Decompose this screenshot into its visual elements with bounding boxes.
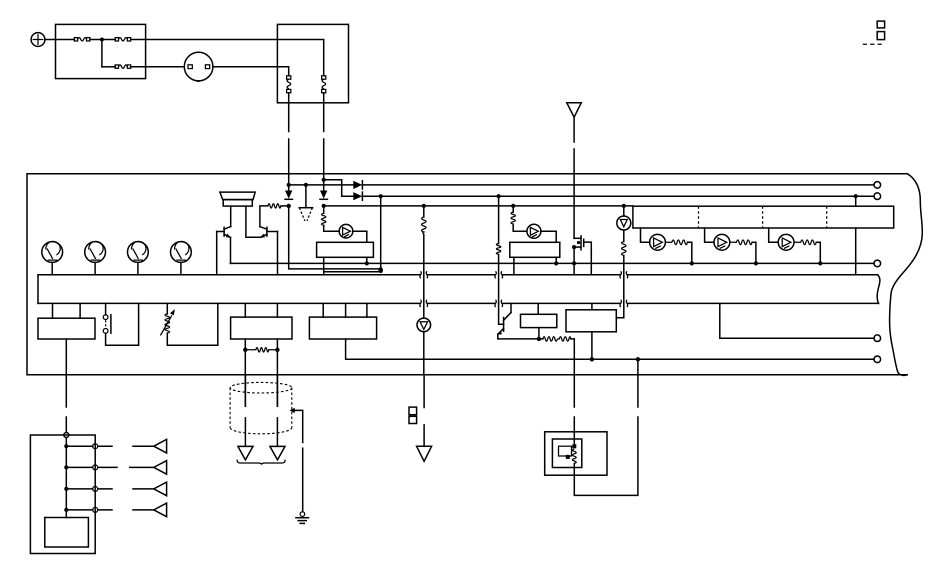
- canister dashed right side: [291, 388, 293, 428]
- rect2b stub down: [538, 328, 540, 339]
- under brace: [237, 460, 285, 465]
- node dot rail3 start: [322, 204, 326, 208]
- valve V6: [617, 216, 631, 230]
- fuse F4: [287, 76, 291, 93]
- module rect3: [566, 310, 616, 332]
- wire box2 right down: [276, 350, 278, 406]
- wire chain x498 lower to bar: [498, 254, 500, 303]
- fuse F5: [322, 76, 326, 93]
- ECU connector bar right squiggle end: [877, 275, 880, 304]
- horn base: [223, 200, 252, 207]
- sensor X1 (two-plate element): [574, 236, 584, 250]
- node dot rail2/sense: [379, 194, 383, 198]
- relay inner box: [552, 439, 581, 468]
- connector pass-through marks x424: [420, 271, 428, 307]
- fuse F2: [115, 38, 131, 41]
- valve V2: [527, 224, 541, 238]
- module box3: [309, 317, 376, 339]
- wire node down: [101, 40, 103, 67]
- node dot X1: [572, 245, 576, 249]
- module divider dashed 2: [762, 206, 764, 228]
- node dot: [100, 38, 104, 42]
- fuse F1: [74, 38, 90, 41]
- injector I3: [778, 234, 794, 250]
- bus wire inside: [65, 438, 67, 518]
- wire switch to top-center box: [213, 66, 278, 68]
- node dot emitter/rect2b: [537, 337, 541, 341]
- resistor RI3: [794, 240, 816, 245]
- injector branch 3 elbow: [769, 228, 778, 242]
- diode D3 on rail1: [353, 181, 362, 189]
- wire F5 down (break band): [323, 93, 325, 132]
- module rect2b: [521, 314, 557, 327]
- box1 output wire down: [65, 339, 67, 407]
- wire antenna down 2: [573, 149, 575, 238]
- connector circle top: [64, 433, 69, 438]
- rail2 wire y=196 to terminal: [362, 195, 874, 197]
- wire antenna down: [573, 117, 575, 142]
- arrow triangle x424: [417, 446, 432, 461]
- node dot rail2 x498: [497, 194, 501, 198]
- wire battery to fusebox: [45, 39, 75, 41]
- canister wire right: [276, 375, 278, 447]
- wire chain x424: [423, 206, 425, 318]
- injector I2: [714, 234, 730, 250]
- resistor R1 horn: [268, 204, 281, 208]
- branch 1: [64, 439, 166, 453]
- wire line B2: [324, 271, 381, 273]
- ECU connector bar top edge: [38, 274, 878, 276]
- resistor RI2: [730, 240, 752, 245]
- wire F4 down (break band): [288, 93, 290, 132]
- node dot R1/diode: [287, 204, 291, 208]
- wire R1 to node: [281, 205, 289, 207]
- wire box2 left down: [244, 350, 246, 406]
- wire tap to ground: [295, 410, 303, 511]
- line A common rail y=263: [231, 262, 874, 264]
- box2 pin 1: [244, 303, 246, 317]
- resistor R6 chain x624: [622, 242, 626, 256]
- node dot line A x366: [365, 261, 369, 265]
- rect2 stub to line A: [555, 257, 557, 263]
- relay drop wire lower: [573, 417, 575, 446]
- resistor R5 chain x498: [496, 243, 500, 254]
- relay wire out bottom: [574, 417, 638, 495]
- node dot line A x556: [554, 261, 558, 265]
- node dot I1: [690, 261, 694, 265]
- wire R2 leads: [324, 206, 340, 231]
- G4 stub: [180, 262, 182, 274]
- wire bar to terminal y338: [720, 303, 874, 338]
- box3 pin 3: [366, 303, 368, 317]
- connector pass-through marks x498: [495, 271, 503, 307]
- canister dashed bottom arc: [230, 428, 292, 434]
- wire V2 to rect2: [541, 231, 556, 242]
- box2 pin 2: [276, 303, 278, 317]
- ignition switch S1: [184, 52, 213, 81]
- box3 output to ground rail: [346, 339, 874, 359]
- rect2 pin to bar: [513, 257, 515, 275]
- injector I1: [650, 234, 666, 250]
- module box1: [38, 318, 95, 339]
- x624 elbow into rect3: [616, 303, 624, 317]
- canister dashed top ellipse: [230, 382, 292, 393]
- node dot rail3 x624: [622, 204, 626, 208]
- ECU connector bar bottom edge: [38, 302, 879, 304]
- rail1 wire y=185 right part to terminal: [362, 184, 874, 186]
- wire x66 below band: [65, 417, 67, 433]
- wire F1 to node: [90, 39, 115, 41]
- resistor RI1: [665, 240, 687, 245]
- resistor R2: [322, 213, 326, 225]
- node dot rail3 x624 chain: [623, 206, 625, 216]
- wire chain x624: [623, 230, 625, 303]
- Q3 emitter wire: [498, 334, 543, 339]
- terminal circle y359: [874, 356, 881, 363]
- canister wire left: [244, 375, 246, 447]
- wire RI3 down to rail: [816, 242, 820, 263]
- module pin x856 down to bar: [855, 228, 857, 275]
- valve V7: [417, 318, 431, 332]
- node dot rail3 x513: [511, 204, 515, 208]
- Q1 base wire to connector: [216, 232, 218, 275]
- diode D1 on F4 wire: [285, 191, 292, 200]
- node dot on F5 wire upper: [322, 178, 326, 182]
- sensor G3: [127, 241, 148, 262]
- box3 pin 2: [345, 303, 347, 317]
- box3 pin 1: [322, 303, 324, 317]
- legend connector squares top-right: [877, 21, 884, 28]
- node dot I2: [754, 261, 758, 265]
- antenna triangle (supply arrow): [567, 103, 582, 118]
- canister dashed left side: [229, 388, 231, 428]
- terminal circle rail1: [874, 182, 881, 189]
- wire F3 to ignition switch: [131, 66, 185, 68]
- junction block outer box: [30, 435, 95, 554]
- relay element: [559, 444, 577, 463]
- horn stem right: [246, 206, 261, 237]
- module divider dashed 1: [698, 206, 700, 228]
- node dot rail2 x856: [854, 194, 858, 198]
- inner module box: [45, 518, 89, 548]
- wire R8 to relay drop: [571, 339, 575, 407]
- module divider dashed 3: [826, 206, 828, 228]
- G1 stub: [51, 262, 53, 274]
- box2 stub left + dot: [244, 339, 246, 350]
- wire chain x513: [513, 206, 527, 231]
- wire into box lower, elbow down to fuse F4: [277, 67, 288, 76]
- box2 stub right + dot: [276, 339, 278, 350]
- rect2b pin up: [537, 303, 539, 314]
- wire chain x498 upper: [498, 196, 500, 243]
- wire node to F3: [102, 66, 115, 68]
- battery B1: [31, 33, 45, 47]
- node B fat dot: [378, 267, 383, 273]
- branch 2: [64, 461, 166, 475]
- horn cone: [220, 192, 255, 200]
- wire sense down to node B: [380, 196, 382, 270]
- branch 3: [64, 482, 166, 496]
- ECU connector bar left edge: [37, 275, 39, 304]
- rect1 stub to line A: [366, 257, 368, 263]
- main ECU box outline with torn right edge: [27, 174, 907, 375]
- wire x424 below band: [423, 425, 425, 447]
- valve V1: [339, 224, 353, 238]
- transistor Q2: [260, 227, 278, 238]
- relay outer box: [545, 432, 607, 475]
- resistor R7 between stubs: [245, 348, 277, 352]
- pin x856 into module: [855, 196, 857, 206]
- terminal circle y338: [874, 335, 881, 342]
- wire F5 down to node: [323, 139, 325, 191]
- horn stem left: [230, 206, 232, 227]
- rect3 pin up: [591, 303, 593, 309]
- injector branch 1 elbow: [641, 228, 650, 242]
- rail3 wire y=206: [324, 205, 633, 207]
- module rect1: [317, 242, 374, 257]
- stub down to trapezoid: [305, 185, 307, 208]
- transistor Q3: [497, 303, 511, 334]
- wire RI2 down to rail: [752, 242, 756, 263]
- rail1 wire y=185 left part: [289, 184, 354, 186]
- terminal circle rail2: [874, 193, 881, 200]
- variable resistor RV1: [160, 303, 175, 335]
- connector pass-through marks x624: [620, 271, 628, 307]
- fuse F3: [115, 65, 131, 68]
- module rect2: [510, 242, 560, 257]
- S2 loop wire: [106, 303, 139, 345]
- sensor G1: [42, 241, 63, 262]
- driver module long rect: [633, 206, 894, 228]
- node dot rail1 start: [287, 183, 291, 187]
- Q1 emitter wire down: [230, 237, 232, 263]
- node dot trapezoid stub: [304, 183, 308, 187]
- X1 right lead to bar pin: [584, 242, 592, 275]
- return wire up to rail dot: [637, 359, 639, 407]
- rect3 stub down to dot: [591, 332, 593, 360]
- resistor R3 chain x424: [422, 217, 426, 234]
- wire RI1 down to rail: [688, 242, 692, 263]
- diode D2 on F5 wire: [320, 191, 327, 200]
- vent triangle right: [270, 446, 285, 460]
- wire F2 right, exits box, runs to top-center box: [131, 39, 278, 41]
- open trapezoid arrow: [299, 208, 312, 221]
- canister tap arrow: [290, 408, 295, 413]
- injector branch 2 elbow: [705, 228, 714, 242]
- torn edge: [890, 174, 923, 376]
- node dot I3: [818, 261, 822, 265]
- wire into box upper, elbow down to fuse F5: [277, 40, 323, 76]
- switch S2: [103, 303, 111, 333]
- resistor R8: [543, 337, 571, 341]
- box1 pin 2: [79, 303, 81, 318]
- legend squares mid: [409, 407, 417, 415]
- wire X1 down to bar: [573, 247, 575, 275]
- diode D4 on rail2: [353, 192, 362, 200]
- wire V7 down, exits box: [423, 332, 425, 375]
- fuse box (junction block): [56, 24, 146, 78]
- resistor R4 chain x513: [511, 212, 515, 224]
- module box2: [231, 317, 292, 339]
- node dot rail x638: [636, 357, 640, 361]
- node dot rail x592: [590, 357, 594, 361]
- wire node down to line B corner: [289, 206, 381, 269]
- rect1 pin to bar: [323, 257, 325, 275]
- branch 4: [64, 503, 166, 517]
- box1 pin 1: [52, 303, 54, 318]
- Q2 collector wire up: [260, 206, 268, 227]
- wire F4 down to node: [288, 139, 290, 191]
- ground symbol: [296, 512, 309, 524]
- wire V1 to rect1: [353, 231, 367, 242]
- RV1 loop wire: [167, 303, 218, 345]
- G2 stub: [94, 262, 96, 274]
- terminal circle line A: [874, 260, 881, 267]
- transistor Q1: [217, 227, 231, 238]
- branch elbow to rail2: [324, 180, 354, 196]
- sensor G2: [85, 241, 106, 262]
- sensor G4: [171, 241, 192, 262]
- node dot rail3 x424: [422, 204, 426, 208]
- Q2 base wire to connector: [277, 232, 279, 275]
- node dot line A x574: [572, 261, 576, 265]
- G3 stub: [137, 262, 139, 274]
- legend dashed line: [863, 43, 885, 45]
- top-center fuse box: [277, 24, 348, 102]
- vent triangle left: [238, 446, 253, 460]
